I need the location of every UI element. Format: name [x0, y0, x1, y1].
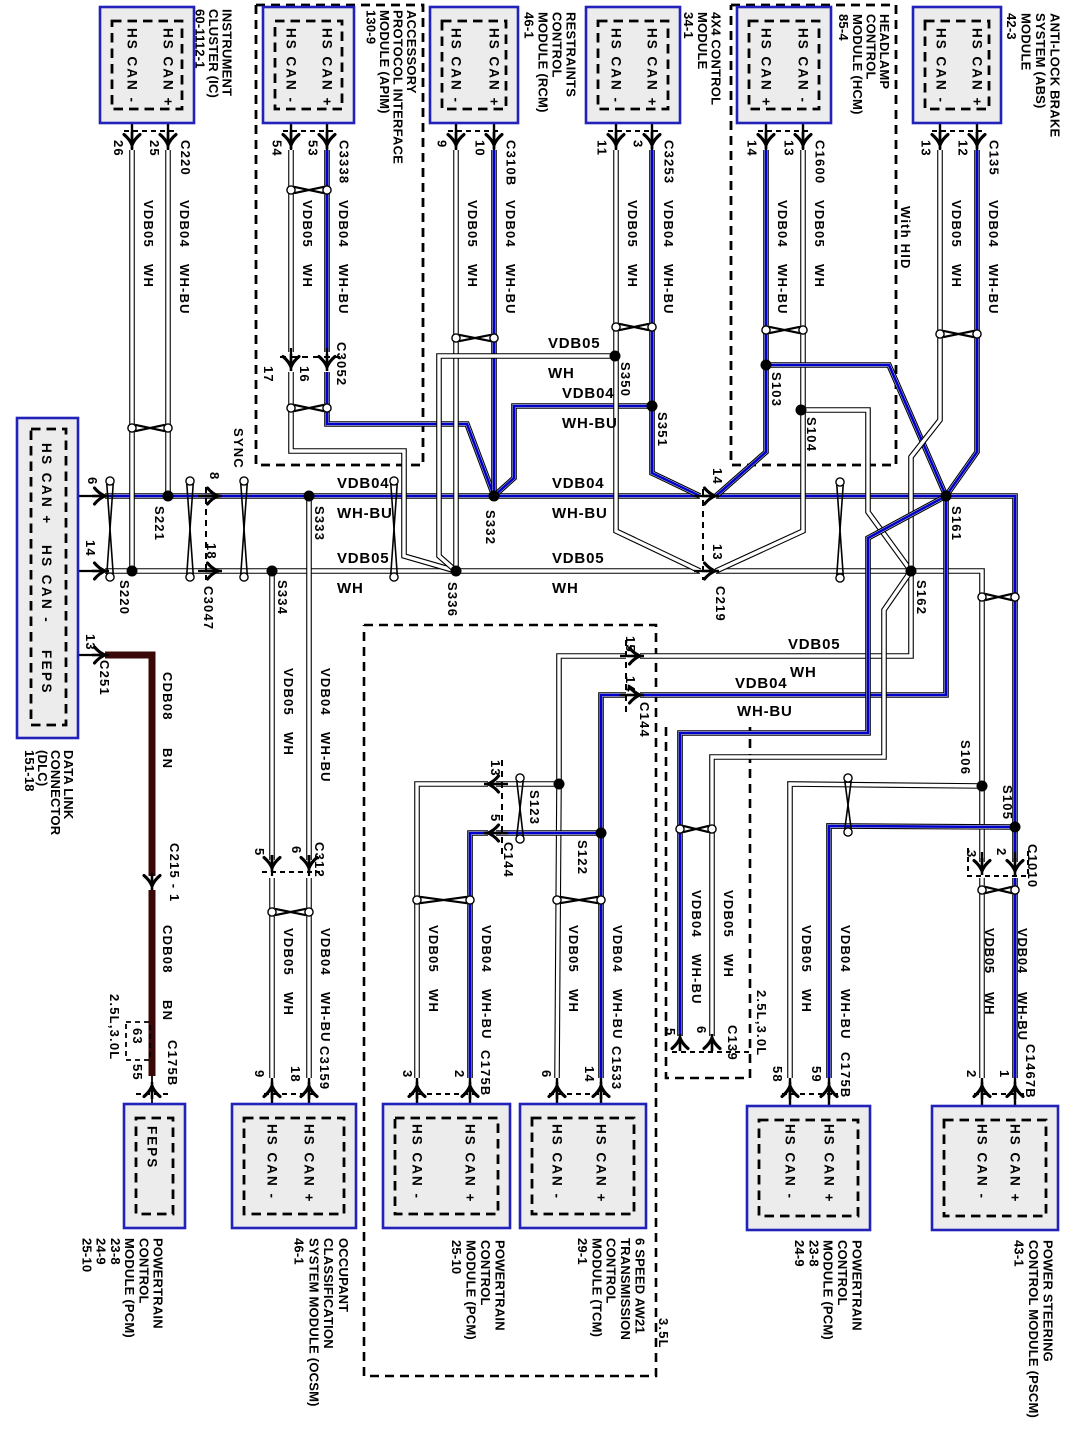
- top connector dashed bracket 4x4 C3253: [608, 130, 660, 132]
- twisted pair symbol C144 pins 13/5 stub: [516, 774, 524, 843]
- svg-text:1: 1: [997, 1070, 1012, 1078]
- svg-text:MODULE (RCM): MODULE (RCM): [536, 12, 551, 113]
- wire IC pin25 VDB04 WH-BU down to S221: [165, 150, 171, 496]
- svg-text:C3159: C3159: [317, 1046, 332, 1090]
- svg-text:S350: S350: [618, 362, 633, 397]
- svg-text:VDB04: VDB04: [1015, 928, 1030, 974]
- top connector dashed bracket ABS C135: [932, 130, 985, 132]
- svg-text:HS CAN -: HS CAN -: [265, 1124, 280, 1200]
- svg-text:SYSTEM (ABS): SYSTEM (ABS): [1033, 13, 1048, 109]
- svg-text:17: 17: [261, 366, 276, 383]
- svg-text:13: 13: [83, 634, 98, 651]
- svg-text:WH-BU: WH-BU: [737, 703, 793, 720]
- module box PCM middle: [383, 1104, 510, 1228]
- svg-text:8: 8: [207, 472, 222, 480]
- pin stub/arrow top module x=616: [615, 112, 617, 150]
- svg-text:WH-BU: WH-BU: [318, 732, 333, 783]
- svg-text:46-1: 46-1: [522, 12, 537, 39]
- svg-text:VDB04: VDB04: [775, 200, 790, 248]
- wire S106 down to C1010 pin3 and PSCM pin2 VDB05 WH: [979, 878, 985, 1078]
- svg-text:HS CAN +: HS CAN +: [39, 443, 54, 526]
- svg-text:S332: S332: [483, 510, 498, 545]
- svg-text:85-4: 85-4: [836, 14, 851, 41]
- svg-text:WH: WH: [949, 264, 964, 288]
- svg-text:C3338: C3338: [337, 140, 352, 184]
- wire 4x4 pin11 VDB05 WH down through S350 to C219 pin13: [616, 150, 700, 571]
- svg-text:13: 13: [488, 760, 503, 777]
- connector C219 dashed line and arrows pins 14/13: [702, 489, 704, 580]
- splice S105: [1010, 822, 1021, 833]
- wire S334 drop to C312 pin5 VDB05 WH: [269, 571, 275, 860]
- svg-text:HS CAN +: HS CAN +: [302, 1124, 317, 1203]
- svg-text:11: 11: [595, 140, 610, 156]
- FEPS C175B dashed bracket and 63 dashed box: [136, 1093, 168, 1095]
- splice S336: [451, 566, 462, 577]
- svg-text:WH: WH: [721, 954, 736, 978]
- splice S161: [941, 491, 952, 502]
- module box HCM: [737, 7, 831, 123]
- pin stub/arrow bottom module x=790: [789, 1078, 791, 1117]
- twisted pair symbol S106/S105 drop: [978, 593, 1019, 601]
- pin stub/arrow top module x=291: [290, 112, 292, 150]
- wire APIM pin53 VDB04 WH-BU down to C3052 pin16: [324, 150, 330, 352]
- module box 4X4 Control Module: [586, 7, 680, 123]
- svg-text:59: 59: [809, 1066, 824, 1083]
- svg-text:2: 2: [994, 848, 1009, 856]
- module box DLC Data Link Connector: [17, 418, 78, 738]
- svg-text:14: 14: [745, 140, 760, 157]
- twisted pair symbol IC wires: [128, 424, 172, 432]
- svg-text:POWERTRAIN: POWERTRAIN: [493, 1240, 508, 1331]
- svg-text:WH-BU: WH-BU: [986, 264, 1001, 315]
- svg-text:WH: WH: [625, 264, 640, 288]
- wire main HS-CAN- white bus VDB05 WH from DLC pin14 to C219 pin13: [105, 568, 700, 574]
- svg-text:WH: WH: [799, 989, 814, 1013]
- wire C144 pin15 left side white to S123 and TCM pin6: [557, 656, 626, 1078]
- With HID group dashed box: [731, 5, 896, 465]
- svg-text:SYSTEM MODULE (OCSM): SYSTEM MODULE (OCSM): [306, 1238, 321, 1407]
- svg-text:CONTROL: CONTROL: [136, 1238, 151, 1304]
- svg-text:S106: S106: [958, 740, 973, 775]
- connector C215-1 arrow on FEPS wire: [151, 873, 154, 890]
- svg-text:14: 14: [582, 1066, 597, 1083]
- svg-text:WH: WH: [465, 264, 480, 288]
- svg-text:HS CAN +: HS CAN +: [161, 28, 176, 107]
- svg-text:VDB04: VDB04: [318, 668, 333, 716]
- svg-text:14: 14: [83, 540, 98, 557]
- svg-text:VDB05: VDB05: [426, 925, 441, 973]
- wire SYNC pin16 VDB04 WH-BU to S332: [327, 372, 494, 496]
- svg-text:With HID: With HID: [898, 206, 913, 270]
- svg-text:TRANSMISSION: TRANSMISSION: [618, 1238, 633, 1340]
- svg-text:63: 63: [130, 1028, 145, 1045]
- svg-text:S351: S351: [655, 412, 670, 447]
- svg-text:HS CAN -: HS CAN -: [609, 28, 624, 104]
- wire IC pin26 VDB05 WH down to S220: [129, 150, 135, 571]
- svg-text:WH: WH: [566, 989, 581, 1013]
- svg-text:6: 6: [539, 1070, 554, 1078]
- svg-text:C3052: C3052: [334, 342, 349, 386]
- svg-text:15: 15: [623, 636, 638, 653]
- svg-text:18: 18: [288, 1066, 303, 1083]
- wire HCM pin14 VDB04 WH-BU down through S103 to C219 pin14 right side: [716, 150, 766, 496]
- svg-text:VDB05: VDB05: [337, 550, 389, 567]
- splice S104: [796, 405, 807, 416]
- svg-text:3: 3: [631, 140, 646, 148]
- bottom connector dashed bracket PSCM C1467B: [974, 1093, 1024, 1095]
- svg-text:18: 18: [204, 543, 219, 560]
- svg-text:S123: S123: [527, 790, 542, 825]
- svg-text:WH-BU: WH-BU: [775, 264, 790, 315]
- DLC pin 13 stub and arrow: [78, 654, 103, 656]
- svg-text:WH-BU: WH-BU: [838, 989, 853, 1040]
- wire C312 pin5 to OCSM pin9 VDB05 WH: [269, 878, 275, 1078]
- top connector dashed bracket RCM C310B: [448, 130, 502, 132]
- svg-text:S122: S122: [575, 840, 590, 875]
- bottom connector dashed bracket PCM C175B: [409, 1093, 479, 1095]
- svg-text:C310B: C310B: [504, 140, 519, 186]
- svg-text:WH: WH: [337, 580, 364, 597]
- svg-text:CDB08: CDB08: [160, 672, 175, 721]
- svg-text:VDB05: VDB05: [721, 890, 736, 938]
- pin stub/arrow bottom module x=557: [556, 1078, 558, 1117]
- svg-text:C219: C219: [713, 586, 728, 622]
- svg-text:VDB05: VDB05: [812, 200, 827, 248]
- wire HCM pin13 VDB05 WH down through S104 to C219 pin13 right side: [716, 150, 803, 571]
- twisted pair symbol HCM wires: [762, 326, 807, 334]
- svg-text:WH: WH: [548, 365, 575, 382]
- SYNC group dashed box: [256, 5, 423, 465]
- svg-text:2.5L,3.0L: 2.5L,3.0L: [107, 994, 122, 1060]
- module box APIM: [263, 7, 354, 123]
- wire S104 branch to S162 VDB05 WH: [801, 410, 911, 571]
- svg-text:VDB05: VDB05: [566, 925, 581, 973]
- svg-text:2: 2: [452, 1070, 467, 1078]
- svg-text:VDB04: VDB04: [552, 475, 604, 492]
- svg-text:CONTROL MODULE (PSCM): CONTROL MODULE (PSCM): [1026, 1240, 1041, 1418]
- svg-text:VDB05: VDB05: [949, 200, 964, 248]
- svg-text:29-1: 29-1: [575, 1238, 590, 1265]
- svg-text:HS CAN +: HS CAN +: [822, 1124, 837, 1203]
- wire C144 pin14 left side blue to S122 and TCM pin14: [601, 695, 626, 1078]
- svg-text:C251: C251: [97, 660, 112, 696]
- bottom connector dashed bracket PCM right C175B: [782, 1093, 838, 1095]
- wire C144 pin13 left side white to PCM pin3: [417, 784, 488, 1078]
- svg-text:2.5L,3.0L: 2.5L,3.0L: [754, 990, 769, 1056]
- pin stub/arrow top module x=766: [765, 112, 767, 150]
- svg-text:VDB04: VDB04: [336, 200, 351, 248]
- svg-text:VDB05: VDB05: [799, 925, 814, 973]
- svg-text:C312: C312: [312, 842, 327, 878]
- twisted pair symbol ABS wires: [936, 330, 981, 338]
- svg-text:VDB05: VDB05: [625, 200, 640, 248]
- wire HS-CAN- white bus right of C219 to S162 and S106 drop: [716, 571, 982, 862]
- wire S162 drop to lower white bus VDB05 WH: [640, 571, 911, 656]
- svg-text:S221: S221: [152, 506, 167, 541]
- svg-text:S161: S161: [949, 506, 964, 541]
- pin stub/arrow top module x=977: [976, 112, 978, 150]
- splice S162: [906, 566, 917, 577]
- module box PCM right: [747, 1106, 870, 1230]
- pin stub/arrow bottom module x=470: [469, 1078, 471, 1117]
- wire RCM pin10 VDB04 WH-BU down to S332: [491, 150, 497, 496]
- svg-text:ANTI-LOCK BRAKE: ANTI-LOCK BRAKE: [1048, 13, 1063, 137]
- svg-text:23-8: 23-8: [108, 1238, 123, 1265]
- twisted pair symbol C139 wires: [676, 825, 716, 833]
- twisted pair symbol RCM wires: [452, 334, 498, 342]
- DLC pin 6 stub and arrow: [78, 495, 103, 497]
- svg-text:C175B: C175B: [165, 1040, 180, 1086]
- svg-text:C3253: C3253: [662, 140, 677, 184]
- module box PSCM: [932, 1106, 1058, 1230]
- splice S103: [761, 360, 772, 371]
- splice S220: [127, 566, 138, 577]
- svg-text:VDB04: VDB04: [735, 675, 787, 692]
- svg-text:MODULE: MODULE: [1019, 13, 1034, 71]
- svg-text:C220: C220: [178, 140, 193, 176]
- svg-text:S103: S103: [769, 372, 784, 407]
- svg-text:WH-BU: WH-BU: [610, 989, 625, 1040]
- svg-text:14: 14: [710, 468, 725, 485]
- svg-text:6 SPEED AW21: 6 SPEED AW21: [633, 1238, 648, 1334]
- svg-text:34-1: 34-1: [681, 12, 696, 39]
- wire S162 diagonal to C139 pin6 VDB05 WH: [712, 571, 911, 1036]
- svg-text:2: 2: [964, 1070, 979, 1078]
- wire S332 jog to S351 VDB04 WH-BU: [494, 406, 652, 496]
- svg-text:MODULE (TCM): MODULE (TCM): [589, 1238, 604, 1337]
- svg-text:HS CAN -: HS CAN -: [284, 28, 299, 104]
- pin stub/arrow bottom module x=272: [271, 1078, 273, 1117]
- svg-text:HS CAN +: HS CAN +: [594, 1124, 609, 1203]
- svg-text:24-9: 24-9: [792, 1240, 807, 1267]
- svg-text:60-1112-1: 60-1112-1: [192, 9, 207, 69]
- svg-text:5: 5: [663, 1028, 678, 1036]
- twisted pair symbol APIM wires above C3052: [287, 186, 331, 194]
- svg-text:CDB08: CDB08: [160, 925, 175, 974]
- wire S123 branch to C144 pin13: [496, 781, 559, 787]
- wire DLC pin13 FEPS CDB08 BN to C215-1: [105, 655, 152, 876]
- svg-text:C1467B: C1467B: [1023, 1044, 1038, 1099]
- wire C215-1 to C175B FEPS CDB08 BN: [149, 890, 156, 1076]
- svg-text:VDB04: VDB04: [318, 928, 333, 976]
- svg-text:MODULE (PCM): MODULE (PCM): [464, 1240, 479, 1340]
- svg-text:HS CAN +: HS CAN +: [759, 28, 774, 107]
- svg-text:10: 10: [473, 140, 488, 157]
- svg-text:C135: C135: [987, 140, 1002, 176]
- svg-text:WH: WH: [982, 992, 997, 1015]
- svg-text:HS CAN +: HS CAN +: [645, 28, 660, 107]
- svg-text:S333: S333: [312, 506, 327, 541]
- module box PCM bottom-left FEPS: [124, 1104, 185, 1228]
- svg-text:WH: WH: [141, 264, 156, 288]
- svg-text:54: 54: [270, 140, 285, 157]
- svg-text:S336: S336: [445, 582, 460, 617]
- svg-text:46-1: 46-1: [292, 1238, 307, 1265]
- svg-text:HS CAN -: HS CAN -: [934, 28, 949, 104]
- svg-text:VDB05: VDB05: [465, 200, 480, 248]
- twisted pair symbol OCSM drop: [268, 908, 313, 916]
- svg-text:WH-BU: WH-BU: [337, 505, 393, 522]
- svg-text:5: 5: [488, 814, 503, 822]
- module box ABS: [913, 7, 1001, 123]
- svg-text:VDB04: VDB04: [177, 200, 192, 248]
- wire C312 pin6 to OCSM pin18 VDB04 WH-BU: [306, 878, 312, 1078]
- top connector dashed bracket APIM C3338: [283, 130, 335, 132]
- pin stub/arrow top module x=494: [493, 112, 495, 150]
- wire S122 branch to C144 pin5: [496, 830, 601, 836]
- svg-text:CLASSIFICATION: CLASSIFICATION: [321, 1238, 336, 1349]
- svg-text:HS CAN -: HS CAN -: [975, 1124, 990, 1200]
- connector C144 left dashed line and arrows pins 13/5: [501, 760, 503, 858]
- svg-text:CONTROL: CONTROL: [835, 1240, 850, 1306]
- svg-text:WH-BU: WH-BU: [562, 415, 618, 432]
- svg-text:FEPS: FEPS: [145, 1126, 160, 1169]
- module box RCM: [430, 7, 518, 123]
- wire S350 jog to S336 VDB05 WH: [439, 356, 615, 571]
- svg-text:S334: S334: [275, 580, 290, 615]
- svg-text:WH-BU: WH-BU: [1015, 992, 1030, 1041]
- svg-text:SYNC: SYNC: [231, 428, 246, 469]
- module box TCM: [520, 1104, 646, 1228]
- splice S221: [163, 491, 174, 502]
- svg-text:VDB04: VDB04: [503, 200, 518, 248]
- svg-text:HS CAN -: HS CAN -: [39, 545, 54, 624]
- svg-text:C1533: C1533: [609, 1046, 624, 1090]
- svg-text:HS CAN +: HS CAN +: [487, 28, 502, 107]
- svg-text:WH-BU: WH-BU: [503, 264, 518, 315]
- twisted pair symbol bus before S161/S162: [836, 478, 844, 582]
- wire S103 branch to S161 VDB04 WH-BU: [766, 365, 946, 496]
- svg-text:VDB04: VDB04: [838, 925, 853, 973]
- wire S105 branch blue to PCM pin59: [829, 826, 1015, 1078]
- wire S333 drop to C312 pin6 VDB04 WH-BU: [306, 496, 312, 860]
- svg-text:VDB04: VDB04: [986, 200, 1001, 248]
- bottom connector dashed bracket TCM C1533: [549, 1093, 610, 1095]
- pin stub/arrow top module x=940: [939, 112, 941, 150]
- twisted pair symbol bus before C219: [390, 477, 398, 581]
- svg-text:WH: WH: [790, 664, 817, 681]
- top connector dashed bracket IC C220: [124, 130, 176, 132]
- svg-text:53: 53: [306, 140, 321, 157]
- svg-text:WH-BU: WH-BU: [689, 954, 704, 1005]
- wire ABS pin12 VDB04 WH-BU down to S161: [946, 150, 977, 496]
- twisted pair symbol below C1010: [978, 886, 1019, 894]
- svg-text:43-1: 43-1: [1011, 1240, 1026, 1267]
- svg-text:HS CAN -: HS CAN -: [125, 28, 140, 104]
- svg-text:14: 14: [623, 676, 638, 693]
- wire S106 branch white to PCM pin58: [790, 784, 982, 1078]
- splice S350: [610, 351, 621, 362]
- svg-text:VDB04: VDB04: [337, 475, 389, 492]
- pin stub/arrow top module x=456: [455, 112, 457, 150]
- svg-text:9: 9: [252, 1070, 267, 1078]
- svg-text:WH: WH: [281, 992, 296, 1016]
- svg-text:VDB05: VDB05: [788, 636, 840, 653]
- svg-text:6: 6: [289, 846, 304, 854]
- svg-text:HS CAN -: HS CAN -: [449, 28, 464, 104]
- pin stub/arrow bottom module x=1015: [1014, 1078, 1016, 1117]
- pin stub/arrow bottom module x=309: [308, 1078, 310, 1117]
- svg-text:12: 12: [956, 140, 971, 157]
- connector C3047 dashed line and arrows pins 8/18: [205, 487, 207, 580]
- svg-text:FEPS: FEPS: [39, 650, 54, 695]
- svg-text:13: 13: [782, 140, 797, 157]
- twisted pair symbol SYNC wires below C3052: [287, 404, 331, 412]
- svg-text:VDB05: VDB05: [300, 200, 315, 248]
- svg-text:WH-BU: WH-BU: [552, 505, 608, 522]
- svg-text:HS CAN -: HS CAN -: [796, 28, 811, 104]
- svg-text:BN: BN: [160, 1000, 175, 1021]
- svg-text:6: 6: [85, 477, 100, 485]
- svg-text:25-10: 25-10: [80, 1238, 95, 1272]
- connector C139 dashed line and arrows pins 5/6: [672, 1051, 750, 1053]
- svg-text:3.5L: 3.5L: [656, 1318, 671, 1349]
- svg-text:HS CAN +: HS CAN +: [1008, 1124, 1023, 1203]
- module box OCSM: [232, 1104, 356, 1228]
- svg-text:3: 3: [964, 850, 979, 858]
- svg-text:VDB05: VDB05: [982, 928, 997, 974]
- splice S122: [596, 828, 607, 839]
- svg-text:RESTRAINTS: RESTRAINTS: [564, 12, 579, 97]
- svg-text:S162: S162: [914, 580, 929, 615]
- wire main HS-CAN+ blue bus VDB04 WH-BU from DLC pin6 to C219 pin14: [105, 493, 700, 499]
- wire 4x4 pin3 VDB04 WH-BU down through S351 to C219 pin14: [652, 150, 700, 496]
- svg-text:POWERTRAIN: POWERTRAIN: [151, 1238, 166, 1329]
- svg-text:WH: WH: [812, 264, 827, 288]
- svg-text:S220: S220: [117, 580, 132, 615]
- svg-text:25: 25: [147, 140, 162, 157]
- svg-text:POWER STEERING: POWER STEERING: [1041, 1240, 1056, 1362]
- twisted pair symbol bus after S221/S220: [186, 477, 194, 581]
- svg-text:6: 6: [694, 1026, 709, 1034]
- svg-text:26: 26: [111, 140, 126, 157]
- svg-text:VDB04: VDB04: [562, 385, 614, 402]
- svg-text:CONTROL: CONTROL: [604, 1238, 619, 1304]
- splice S351: [647, 401, 658, 412]
- svg-text:VDB05: VDB05: [281, 928, 296, 976]
- svg-text:CONTROL: CONTROL: [478, 1240, 493, 1306]
- pin stub/arrow bottom module x=601: [600, 1078, 602, 1117]
- svg-text:WH: WH: [300, 264, 315, 288]
- wire S161 diagonal to C139 pin5 VDB04 WH-BU: [680, 496, 946, 1036]
- svg-text:POWERTRAIN: POWERTRAIN: [850, 1240, 865, 1331]
- svg-text:130-9: 130-9: [364, 10, 379, 44]
- svg-text:VDB04: VDB04: [661, 200, 676, 248]
- svg-text:CONTROL: CONTROL: [550, 12, 565, 78]
- twisted pair symbol PCM-mid drop: [413, 896, 474, 904]
- svg-text:C1600: C1600: [813, 140, 828, 184]
- svg-text:WH-BU: WH-BU: [336, 264, 351, 315]
- pin stub/arrow top module x=803: [802, 112, 804, 150]
- splice S123: [554, 779, 565, 790]
- connector C144 right dashed line and arrows pins 15/14: [625, 640, 627, 712]
- 3.5L group dashed box: [364, 625, 656, 1376]
- wire S105 down to C1010 pin2 and PSCM pin1 VDB04 WH-BU: [1012, 878, 1018, 1078]
- svg-text:C144: C144: [637, 702, 652, 738]
- svg-text:9: 9: [435, 140, 450, 148]
- svg-text:HS CAN -: HS CAN -: [550, 1124, 565, 1200]
- svg-text:WH-BU: WH-BU: [318, 992, 333, 1043]
- splice S332: [489, 491, 500, 502]
- twisted pair symbol TCM drop: [553, 896, 605, 904]
- svg-text:HS CAN +: HS CAN +: [463, 1124, 478, 1203]
- svg-text:HS CAN +: HS CAN +: [970, 28, 985, 107]
- svg-text:VDB05: VDB05: [548, 335, 600, 352]
- svg-text:C3047: C3047: [201, 586, 216, 630]
- pin stub/arrow bottom module x=829: [828, 1078, 830, 1117]
- svg-text:OCCUPANT: OCCUPANT: [336, 1238, 351, 1312]
- FEPS C175B arrow and stub: [151, 1082, 154, 1099]
